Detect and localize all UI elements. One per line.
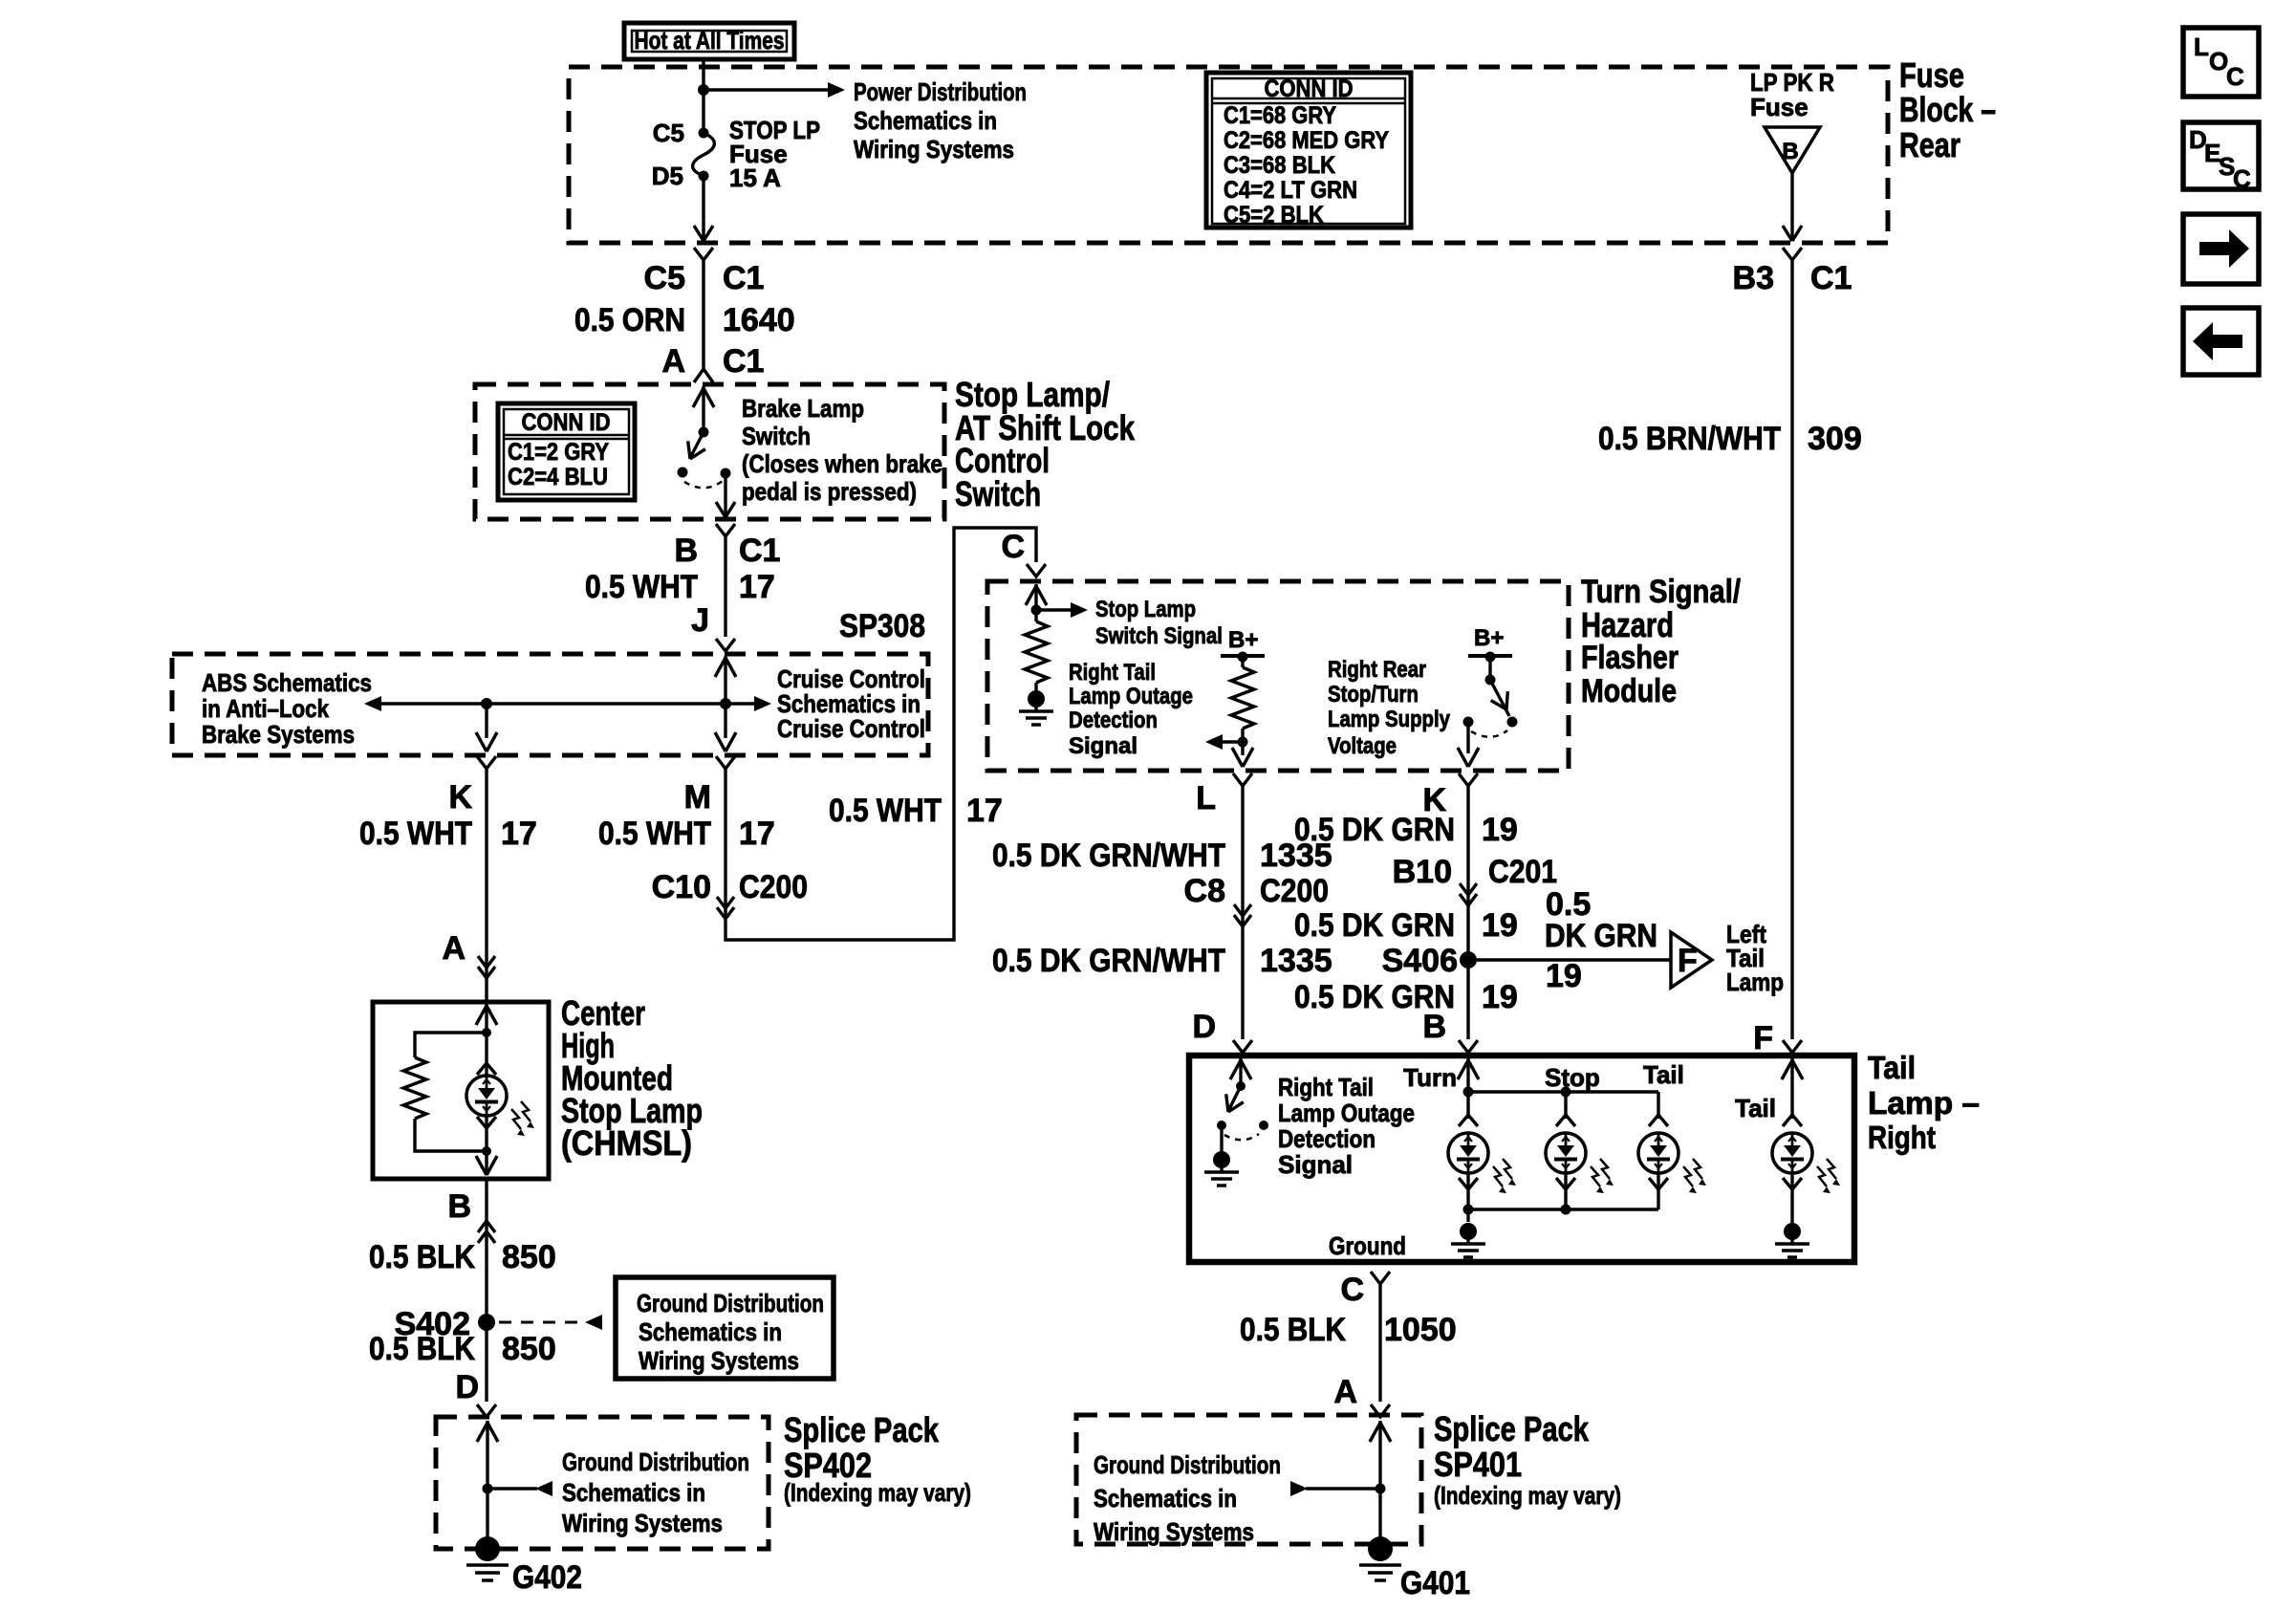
svg-text:Tail: Tail [1868,1050,1916,1085]
svg-text:Right Tail: Right Tail [1069,660,1156,686]
svg-text:F: F [1753,1020,1773,1056]
svg-text:Right Tail: Right Tail [1278,1073,1374,1101]
svg-text:Lamp: Lamp [1726,968,1784,996]
svg-text:B: B [1422,1009,1446,1045]
svg-text:C4=2 LT GRN: C4=2 LT GRN [1224,177,1357,204]
svg-text:L: L [1196,780,1216,816]
svg-text:Ground Distribution: Ground Distribution [1094,1450,1281,1479]
svg-text:0.5 WHT: 0.5 WHT [585,569,698,605]
svg-text:Switch: Switch [955,474,1041,513]
svg-text:in Anti–Lock: in Anti–Lock [202,694,329,723]
svg-text:C2=4 BLU: C2=4 BLU [508,464,608,490]
svg-text:C10: C10 [652,869,711,905]
svg-text:Block –: Block – [1899,90,1996,129]
svg-text:(Indexing may vary): (Indexing may vary) [1434,1481,1621,1510]
svg-text:M: M [684,779,711,816]
svg-text:C3=68 BLK: C3=68 BLK [1224,152,1335,179]
svg-text:CONN ID: CONN ID [1265,76,1354,102]
svg-text:C: C [1001,529,1025,565]
svg-text:0.5 WHT: 0.5 WHT [598,816,711,852]
svg-text:(Indexing may vary): (Indexing may vary) [784,1478,971,1507]
svg-text:B: B [447,1188,471,1225]
svg-text:17: 17 [739,816,775,852]
svg-text:L: L [2194,33,2209,61]
svg-text:Rear: Rear [1899,125,1960,164]
svg-text:C5=2 BLK: C5=2 BLK [1224,202,1324,229]
svg-text:Fuse: Fuse [1750,93,1809,121]
svg-text:Lamp Outage: Lamp Outage [1069,684,1193,709]
svg-text:1335: 1335 [1260,943,1332,979]
svg-text:15 A: 15 A [729,163,781,192]
svg-text:0.5 BRN/WHT: 0.5 BRN/WHT [1598,421,1781,457]
svg-text:Tail: Tail [1735,1094,1776,1122]
svg-text:Schematics in: Schematics in [639,1317,782,1346]
svg-text:0.5 DK GRN: 0.5 DK GRN [1294,907,1455,944]
svg-text:Brake Systems: Brake Systems [202,720,355,749]
svg-text:C1: C1 [723,260,764,296]
svg-text:C5: C5 [644,260,685,296]
svg-text:C1=68 GRY: C1=68 GRY [1224,102,1336,129]
svg-text:Power Distribution: Power Distribution [854,77,1027,106]
svg-text:SP308: SP308 [839,608,925,644]
svg-text:B3: B3 [1733,260,1774,296]
svg-text:0.5 DK GRN/WHT: 0.5 DK GRN/WHT [992,838,1225,874]
svg-text:Ground Distribution: Ground Distribution [637,1289,824,1317]
svg-text:Stop: Stop [1545,1063,1600,1092]
svg-text:A: A [1333,1374,1357,1410]
svg-text:Splice Pack: Splice Pack [1434,1409,1590,1448]
svg-text:Stop Lamp: Stop Lamp [1095,597,1196,622]
svg-text:Lamp –: Lamp – [1868,1085,1980,1121]
svg-text:Voltage: Voltage [1328,733,1397,759]
svg-text:Module: Module [1581,673,1677,709]
svg-text:B: B [674,533,698,569]
svg-text:Lamp Supply: Lamp Supply [1328,707,1451,732]
svg-text:D5: D5 [652,162,683,190]
svg-text:Fuse: Fuse [1899,55,1964,95]
svg-text:Switch Signal: Switch Signal [1095,623,1223,649]
svg-text:C: C [2233,164,2251,193]
svg-text:G401: G401 [1400,1565,1470,1601]
svg-text:B10: B10 [1393,854,1452,890]
svg-text:C200: C200 [1260,873,1329,909]
svg-text:Lamp Outage: Lamp Outage [1278,1099,1415,1127]
svg-text:C2=68 MED GRY: C2=68 MED GRY [1224,127,1389,154]
svg-text:1335: 1335 [1260,838,1332,874]
svg-text:0.5 WHT: 0.5 WHT [359,816,472,852]
svg-text:Turn: Turn [1403,1063,1457,1092]
svg-text:17: 17 [739,569,775,605]
svg-text:B: B [1782,139,1798,164]
svg-text:B+: B+ [1474,625,1504,651]
svg-text:850: 850 [502,1331,556,1367]
svg-text:Brake Lamp: Brake Lamp [742,394,864,423]
svg-text:CONN ID: CONN ID [522,409,611,436]
svg-text:Splice Pack: Splice Pack [784,1410,940,1449]
svg-text:0.5 BLK: 0.5 BLK [369,1239,475,1275]
svg-text:Signal: Signal [1278,1150,1353,1179]
svg-text:19: 19 [1482,812,1518,848]
svg-text:Switch: Switch [742,422,811,450]
svg-text:B+: B+ [1228,627,1258,653]
svg-text:C: C [1340,1272,1364,1308]
svg-text:19: 19 [1546,958,1582,994]
svg-text:Wiring Systems: Wiring Systems [562,1509,723,1537]
svg-text:Flasher: Flasher [1581,640,1679,676]
svg-text:19: 19 [1482,907,1518,944]
svg-text:Ground Distribution: Ground Distribution [562,1448,749,1476]
svg-text:Detection: Detection [1069,708,1158,733]
svg-text:Wiring Systems: Wiring Systems [639,1346,799,1375]
svg-text:C8: C8 [1184,873,1225,909]
svg-text:F: F [1678,943,1698,979]
svg-text:D: D [455,1369,479,1405]
svg-text:C201: C201 [1488,854,1557,890]
svg-text:C200: C200 [739,869,808,905]
svg-text:850: 850 [502,1239,556,1275]
svg-text:C1: C1 [723,343,764,380]
svg-text:0.5 ORN: 0.5 ORN [574,302,685,338]
svg-text:309: 309 [1808,421,1862,457]
svg-text:Stop/Turn: Stop/Turn [1328,682,1419,708]
svg-text:SP401: SP401 [1434,1445,1522,1484]
svg-text:Schematics in: Schematics in [1094,1484,1237,1513]
svg-text:(CHMSL): (CHMSL) [561,1123,692,1163]
svg-text:C1=2 GRY: C1=2 GRY [508,439,609,466]
svg-text:S406: S406 [1382,943,1458,979]
svg-text:Tail: Tail [1643,1060,1684,1089]
svg-text:Wiring Systems: Wiring Systems [854,135,1014,163]
svg-text:Cruise Control: Cruise Control [777,714,925,743]
svg-text:Detection: Detection [1278,1124,1375,1153]
svg-text:C5: C5 [653,119,684,147]
svg-text:pedal is pressed): pedal is pressed) [742,477,917,506]
svg-text:Right: Right [1868,1120,1936,1155]
svg-text:Hot at All Times: Hot at All Times [635,26,785,54]
svg-text:0.5 DK GRN/WHT: 0.5 DK GRN/WHT [992,943,1225,979]
svg-text:Schematics in: Schematics in [562,1478,705,1507]
svg-text:Right Rear: Right Rear [1328,657,1426,683]
svg-text:C: C [2226,62,2244,91]
svg-text:Wiring Systems: Wiring Systems [1094,1517,1254,1546]
svg-text:1050: 1050 [1384,1312,1457,1348]
svg-text:0.5 BLK: 0.5 BLK [1240,1312,1346,1348]
svg-text:Schematics in: Schematics in [854,106,997,135]
svg-text:Ground: Ground [1329,1231,1406,1260]
svg-text:D: D [1192,1009,1216,1045]
svg-text:0.5 BLK: 0.5 BLK [369,1331,475,1367]
svg-text:Signal: Signal [1069,733,1137,759]
svg-text:A: A [661,343,685,380]
svg-text:17: 17 [966,793,1003,829]
svg-text:DK GRN: DK GRN [1545,918,1657,954]
svg-text:1640: 1640 [723,302,795,338]
svg-text:0.5 WHT: 0.5 WHT [829,793,942,829]
svg-text:C1: C1 [1810,260,1852,296]
svg-text:17: 17 [501,816,537,852]
svg-text:ABS Schematics: ABS Schematics [202,668,372,697]
svg-text:A: A [442,930,466,967]
svg-text:(Closes when brake: (Closes when brake [742,449,942,478]
svg-text:K: K [448,779,472,816]
svg-text:J: J [691,602,709,639]
svg-text:19: 19 [1482,979,1518,1015]
svg-text:G402: G402 [512,1559,582,1596]
svg-text:Hazard: Hazard [1581,605,1674,644]
svg-text:C1: C1 [739,533,780,569]
